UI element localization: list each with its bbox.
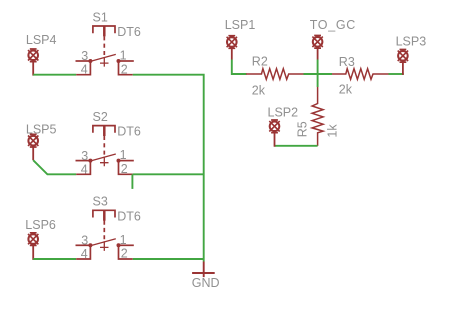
svg-text:LSP4: LSP4 [26, 33, 57, 47]
svg-text:2: 2 [121, 247, 128, 261]
svg-text:R5: R5 [295, 121, 309, 137]
wire LSP1 to R2 [232, 60, 247, 75]
wire R5 to LSP2 [275, 145, 318, 147]
svg-text:2k: 2k [339, 83, 353, 97]
pad LSP3 [398, 50, 408, 75]
wire LSP5 to S2 pin4 [33, 160, 76, 174]
svg-text:R3: R3 [339, 55, 355, 69]
svg-text:R2: R2 [252, 55, 268, 69]
svg-text:DT6: DT6 [117, 125, 141, 139]
wire R3 to LSP3 [389, 73, 404, 75]
svg-text:1: 1 [120, 49, 127, 63]
svg-text:1k: 1k [326, 124, 340, 138]
wire R2 to node [304, 73, 333, 75]
wire stub below S2 pin2 [131, 174, 133, 189]
pad LSP1 [227, 36, 237, 60]
svg-text:2k: 2k [252, 84, 266, 98]
wire S2 pin2 to GND rail [133, 173, 204, 175]
svg-text:LSP1: LSP1 [225, 18, 256, 32]
svg-text:LSP3: LSP3 [396, 34, 427, 48]
svg-text:DT6: DT6 [117, 209, 141, 223]
svg-text:3: 3 [81, 49, 88, 63]
pad LSP6 [28, 233, 38, 260]
ground GND [192, 262, 215, 278]
svg-text:GND: GND [192, 276, 220, 290]
svg-text:DT6: DT6 [117, 25, 141, 39]
svg-text:LSP6: LSP6 [25, 218, 56, 232]
wire S1 pin2 to GND rail [133, 75, 204, 262]
svg-text:1: 1 [120, 233, 127, 247]
svg-text:2: 2 [121, 62, 128, 76]
switch S2 [76, 126, 134, 175]
wire S3 pin2 to GND rail [133, 258, 204, 260]
resistor R3 [332, 69, 389, 80]
svg-text:S1: S1 [93, 10, 108, 24]
svg-text:S2: S2 [93, 110, 108, 124]
svg-text:LSP5: LSP5 [26, 123, 57, 137]
svg-text:TO_GC: TO_GC [310, 18, 356, 32]
wire LSP4 to S1 pin4 [33, 74, 76, 76]
pad LSP5 [28, 134, 38, 160]
svg-text:S3: S3 [93, 195, 108, 209]
svg-text:3: 3 [81, 149, 88, 163]
pad LSP2 [269, 120, 279, 147]
wire LSP6 to S3 pin4 [33, 258, 76, 260]
resistor R2 [246, 69, 304, 80]
svg-text:4: 4 [81, 247, 88, 261]
wire TO_GC to node and R5 [317, 60, 319, 88]
svg-text:1: 1 [120, 148, 127, 162]
svg-text:4: 4 [81, 63, 88, 77]
pad TO_GC [312, 36, 322, 60]
svg-text:LSP2: LSP2 [268, 105, 299, 119]
svg-text:2: 2 [121, 162, 128, 176]
switch S1 [76, 26, 134, 75]
svg-text:4: 4 [81, 162, 88, 176]
svg-text:3: 3 [81, 234, 88, 248]
resistor R5 [312, 87, 323, 146]
switch S3 [76, 210, 134, 259]
pad LSP4 [28, 49, 38, 76]
